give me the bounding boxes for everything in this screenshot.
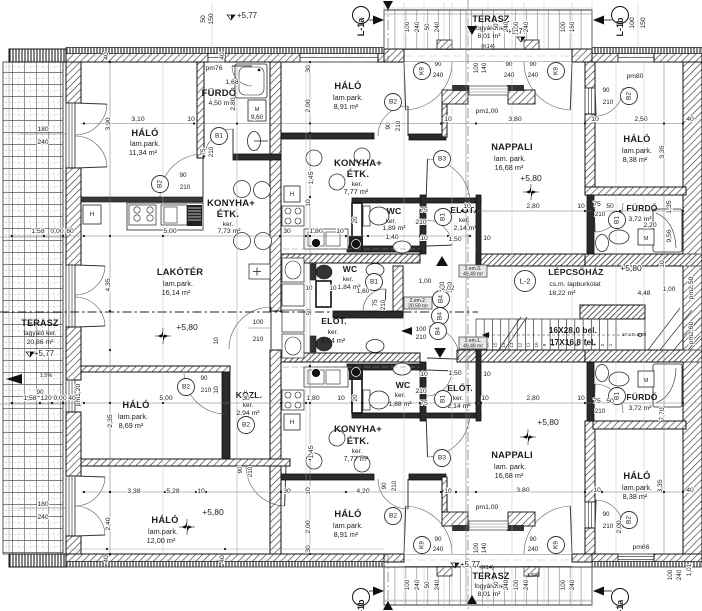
svg-text:B2: B2 xyxy=(626,516,633,524)
north wall NE corner xyxy=(654,49,702,62)
svg-text:10: 10 xyxy=(577,395,585,402)
loggia inner wall piers top xyxy=(442,90,468,104)
svg-text:100: 100 xyxy=(416,326,427,333)
svg-text:1,80: 1,80 xyxy=(309,228,322,235)
svg-text:WC: WC xyxy=(396,380,411,390)
unit label 2.em.1. xyxy=(459,337,487,349)
shelf box apt1 xyxy=(249,264,270,279)
door HÁLÓ 8,91 bottom xyxy=(378,479,408,509)
svg-text:FÜRDŐ: FÜRDŐ xyxy=(626,391,657,402)
svg-text:9,56: 9,56 xyxy=(666,229,673,242)
sink counter center xyxy=(304,229,348,249)
staircase walk line xyxy=(482,334,640,336)
svg-text:M: M xyxy=(644,236,649,242)
section L-1b top xyxy=(612,7,629,24)
svg-text:ÉTK.: ÉTK. xyxy=(217,209,239,220)
svg-text:10: 10 xyxy=(305,199,312,207)
svg-text:16,68 m²: 16,68 m² xyxy=(495,163,524,172)
window pm66 xyxy=(618,554,654,562)
svg-text:1,68: 1,68 xyxy=(225,79,238,86)
WC/ELŐT north wall top xyxy=(352,198,481,203)
stair hall west wall bottom xyxy=(476,350,481,421)
svg-text:8,01 m²: 8,01 m² xyxy=(477,33,501,40)
svg-text:1,5%: 1,5% xyxy=(40,373,53,379)
svg-text:140: 140 xyxy=(481,62,488,73)
svg-text:240: 240 xyxy=(523,21,530,32)
svg-text:HÁLÓ: HÁLÓ xyxy=(122,399,149,410)
svg-text:2,14 m²: 2,14 m² xyxy=(453,225,477,232)
svg-text:+5,80: +5,80 xyxy=(176,322,198,332)
svg-text:B4: B4 xyxy=(435,327,442,335)
svg-text:40: 40 xyxy=(686,487,694,494)
section L-1b bottom xyxy=(353,589,370,606)
kitchen counter top-left xyxy=(127,203,203,230)
svg-text:B1: B1 xyxy=(440,395,447,403)
staircase winder steps xyxy=(616,305,700,350)
label B2 háló 8,69 xyxy=(178,379,195,396)
svg-text:WC: WC xyxy=(343,264,358,274)
svg-text:75: 75 xyxy=(420,207,428,214)
svg-text:40: 40 xyxy=(219,555,226,563)
svg-text:3,10: 3,10 xyxy=(131,116,144,123)
H cabinet top-left xyxy=(83,205,101,224)
svg-text:1,01: 1,01 xyxy=(686,563,693,576)
svg-text:1,35: 1,35 xyxy=(666,200,673,213)
svg-text:10: 10 xyxy=(659,260,666,268)
svg-text:16,68 m²: 16,68 m² xyxy=(495,471,524,480)
svg-text:pm80: pm80 xyxy=(626,73,643,80)
bottom terrace inner piers xyxy=(437,567,452,576)
staircase cut line xyxy=(497,317,521,352)
shower door arc top-left xyxy=(232,66,252,86)
svg-text:lam.park.: lam.park. xyxy=(333,521,363,530)
loggia door caps top xyxy=(452,85,469,91)
unit label 2.em.2. xyxy=(404,297,432,309)
svg-text:B2: B2 xyxy=(182,384,190,391)
svg-text:240: 240 xyxy=(434,579,441,590)
svg-text:(K14): (K14) xyxy=(480,565,494,571)
section line arrows xyxy=(383,1,393,10)
svg-text:LAKÓTÉR: LAKÓTÉR xyxy=(157,266,203,277)
svg-text:75: 75 xyxy=(200,148,207,156)
svg-text:2,80: 2,80 xyxy=(526,395,539,402)
door HÁLÓ top-left xyxy=(160,154,203,197)
entry door top apt xyxy=(428,159,471,203)
window HÁLÓ 8,91 xyxy=(300,49,378,62)
svg-text:K9: K9 xyxy=(419,67,426,75)
section L-1a top xyxy=(353,7,370,24)
svg-text:11,34 m²: 11,34 m² xyxy=(129,148,158,157)
svg-text:7,77 m²: 7,77 m² xyxy=(344,454,369,463)
north wall insulation layer xyxy=(66,48,384,54)
svg-text:150: 150 xyxy=(208,13,215,25)
label B2 háló 8,38 top xyxy=(621,88,638,105)
svg-text:7,77 m²: 7,77 m² xyxy=(344,187,369,196)
svg-text:16,14 m²: 16,14 m² xyxy=(162,288,191,297)
toilet center WC xyxy=(363,206,370,226)
svg-text:30: 30 xyxy=(305,545,312,553)
svg-text:12,00 m²: 12,00 m² xyxy=(147,536,176,545)
svg-text:240: 240 xyxy=(569,579,576,590)
top terrace tiled floor xyxy=(384,10,592,49)
north wall stub xyxy=(378,49,384,62)
svg-text:B2: B2 xyxy=(626,92,633,100)
svg-text:KONYHA+: KONYHA+ xyxy=(207,198,255,209)
svg-text:240: 240 xyxy=(528,546,539,553)
svg-text:+5,80: +5,80 xyxy=(520,173,542,183)
svg-text:210: 210 xyxy=(415,388,427,395)
washing machine M top-left xyxy=(248,100,266,121)
door FÜRDŐ top-left xyxy=(205,129,233,157)
left terrace inner dashed edge xyxy=(62,62,64,554)
svg-text:20: 20 xyxy=(352,394,359,402)
right FÜRDŐ washing machine xyxy=(638,229,654,245)
north terrace railing edge xyxy=(9,49,66,62)
svg-text:lam.park.: lam.park. xyxy=(130,139,160,148)
svg-text:30: 30 xyxy=(283,488,291,495)
svg-text:100: 100 xyxy=(513,21,520,32)
svg-text:3,80: 3,80 xyxy=(516,487,529,494)
svg-text:K9: K9 xyxy=(553,541,560,549)
svg-text:ker.: ker. xyxy=(243,402,254,409)
svg-text:10: 10 xyxy=(591,116,599,123)
svg-text:8,91 m²: 8,91 m² xyxy=(334,530,359,539)
left terrace tiled floor xyxy=(3,62,63,554)
svg-text:pm1,20: pm1,20 xyxy=(75,383,82,406)
svg-text:2,02: 2,02 xyxy=(442,285,455,292)
apt1 washbasin xyxy=(366,340,384,353)
svg-text:100: 100 xyxy=(560,579,567,590)
west french door opening 1 xyxy=(66,103,75,168)
svg-text:pm1,00: pm1,00 xyxy=(476,504,499,511)
svg-text:50: 50 xyxy=(606,398,614,405)
west french door opening 3 xyxy=(66,476,75,536)
svg-text:240: 240 xyxy=(414,21,421,32)
svg-text:10: 10 xyxy=(329,285,337,292)
right FÜRDŐ washbasin xyxy=(609,372,629,386)
WC south wall top xyxy=(347,246,421,252)
apt1 bath counter xyxy=(282,258,304,282)
svg-text:100: 100 xyxy=(404,579,411,590)
svg-text:8,38 m²: 8,38 m² xyxy=(623,492,648,501)
west wall pier 2 xyxy=(66,168,81,265)
stair mid rail wall xyxy=(580,305,645,319)
apt1 WC east wall xyxy=(393,266,403,314)
svg-text:H: H xyxy=(290,420,294,426)
south wall insulation layer xyxy=(66,562,384,568)
svg-text:B3: B3 xyxy=(438,156,446,163)
svg-text:100: 100 xyxy=(473,542,480,553)
top terrace pier W xyxy=(384,49,404,62)
svg-text:L-2: L-2 xyxy=(520,277,531,286)
svg-text:75: 75 xyxy=(593,201,601,208)
west door leafs 2 xyxy=(75,266,105,295)
svg-text:4,35: 4,35 xyxy=(105,278,112,291)
svg-text:4,48: 4,48 xyxy=(638,290,651,297)
west wall pier 3 xyxy=(66,327,81,380)
svg-text:KONYHA+: KONYHA+ xyxy=(334,158,382,169)
door LAKÓTÉR in party wall xyxy=(229,307,271,349)
svg-text:+5,77: +5,77 xyxy=(237,11,258,20)
svg-text:8,01 m²: 8,01 m² xyxy=(477,591,501,598)
label B2 háló top-left xyxy=(152,176,169,193)
stair hall north wall east part xyxy=(585,254,702,266)
apt1 bath counter xyxy=(282,334,304,358)
svg-text:210: 210 xyxy=(391,480,398,491)
svg-text:75: 75 xyxy=(593,398,601,405)
apt1 WC south wall xyxy=(333,311,403,318)
party wall right lower 2 xyxy=(585,421,595,502)
svg-text:7,73 m²: 7,73 m² xyxy=(217,228,241,235)
svg-text:240: 240 xyxy=(503,579,510,590)
terrace pier stub xyxy=(442,104,447,137)
svg-text:210: 210 xyxy=(380,299,387,310)
svg-text:lam. park.: lam. park. xyxy=(494,154,526,163)
svg-text:240: 240 xyxy=(414,579,421,590)
WC niche walls apt1 xyxy=(316,281,331,307)
west wall pier 4 xyxy=(66,412,81,476)
label K9 top west xyxy=(414,63,431,80)
svg-text:HÁLÓ: HÁLÓ xyxy=(151,514,178,525)
svg-text:5,00: 5,00 xyxy=(163,228,176,235)
svg-text:10: 10 xyxy=(577,203,585,210)
door HÁLÓ 8,38 bottom xyxy=(596,500,623,528)
svg-text:7,70: 7,70 xyxy=(659,407,666,420)
label K9 bottom east xyxy=(548,537,565,554)
HÁLÓ 8,91 south wall xyxy=(281,133,374,139)
svg-text:2,00: 2,00 xyxy=(616,520,623,533)
svg-text:lam.park.: lam.park. xyxy=(622,483,652,492)
svg-text:4,50 m²: 4,50 m² xyxy=(208,100,232,107)
svg-text:90: 90 xyxy=(602,511,610,518)
svg-text:1,88 m²: 1,88 m² xyxy=(388,401,412,408)
svg-text:HÁLÓ: HÁLÓ xyxy=(334,508,361,519)
unit label 2.em.3. xyxy=(459,265,487,277)
svg-text:90: 90 xyxy=(385,122,392,130)
stair hall south wall west part xyxy=(281,353,420,362)
svg-text:B3: B3 xyxy=(438,455,446,462)
svg-text:(K14): (K14) xyxy=(481,44,495,50)
svg-text:ÉTK.: ÉTK. xyxy=(347,169,369,180)
svg-text:B2: B2 xyxy=(389,513,397,520)
svg-text:10: 10 xyxy=(420,235,428,242)
stair hall west wall top xyxy=(476,195,481,266)
svg-text:pm2,60: pm2,60 xyxy=(688,321,695,344)
loggia window pm1,00 bottom xyxy=(469,521,508,530)
label B2 háló 8,91 top xyxy=(385,94,402,111)
terrace door K9 east xyxy=(524,62,570,110)
ELŐT west wall top xyxy=(420,195,426,254)
svg-text:10: 10 xyxy=(197,488,205,495)
svg-text:1,00: 1,00 xyxy=(663,286,676,293)
svg-text:240: 240 xyxy=(528,72,539,79)
svg-text:FÜRDŐ: FÜRDŐ xyxy=(626,202,657,213)
svg-text:1,89 m²: 1,89 m² xyxy=(382,225,406,232)
svg-text:140: 140 xyxy=(481,542,488,553)
svg-text:10: 10 xyxy=(213,386,220,394)
svg-text:8,38 m²: 8,38 m² xyxy=(623,155,648,164)
svg-text:210: 210 xyxy=(595,408,606,415)
HÁLÓ 8,91 north wall bottom east xyxy=(409,474,446,480)
right FÜRDŐ bathtub xyxy=(653,364,682,407)
svg-text:ELŐT.: ELŐT. xyxy=(447,382,473,393)
svg-text:5,00: 5,00 xyxy=(159,395,172,402)
svg-text:210: 210 xyxy=(595,211,606,218)
dining circles top-left apt xyxy=(234,181,251,198)
svg-text:210: 210 xyxy=(395,120,402,131)
svg-text:90: 90 xyxy=(381,482,388,490)
svg-text:3,72 m²: 3,72 m² xyxy=(628,405,652,412)
svg-text:75: 75 xyxy=(420,400,428,407)
svg-text:210: 210 xyxy=(247,466,254,477)
label B2 közl xyxy=(238,417,255,434)
HÁLÓ 8,69 north wall xyxy=(81,366,230,372)
FÜRDŐ bottom-right north wall xyxy=(593,421,686,429)
label B3 entry top xyxy=(434,151,451,168)
FÜRDŐ west wall bottom xyxy=(587,362,594,421)
west wall pier 5 xyxy=(66,536,81,554)
HÁLÓ 8,38 south wall xyxy=(585,187,686,195)
svg-text:100: 100 xyxy=(667,569,674,580)
washbasin center WC xyxy=(393,241,411,253)
svg-text:10: 10 xyxy=(534,342,539,348)
svg-text:10: 10 xyxy=(305,487,312,495)
svg-text:1,00: 1,00 xyxy=(419,278,432,285)
svg-text:90: 90 xyxy=(529,61,537,68)
svg-text:20: 20 xyxy=(352,216,359,224)
svg-text:160: 160 xyxy=(569,21,576,32)
FÜRDŐ west wall top xyxy=(587,195,594,254)
svg-text:L-1b: L-1b xyxy=(615,17,625,37)
ELŐT west wall bottom xyxy=(420,362,426,421)
svg-text:K9: K9 xyxy=(419,541,426,549)
svg-text:2,00: 2,00 xyxy=(305,520,312,533)
svg-text:240: 240 xyxy=(523,579,530,590)
svg-text:50: 50 xyxy=(424,23,431,31)
party wall right lower xyxy=(585,528,595,554)
label B1 fürdő top-right xyxy=(609,212,626,229)
label B4 c xyxy=(430,323,447,340)
svg-text:3,35: 3,35 xyxy=(659,145,666,158)
washbasin center WC xyxy=(393,363,411,375)
svg-text:FÜRDŐ: FÜRDŐ xyxy=(202,87,237,99)
west wall pier 1 xyxy=(66,62,81,103)
svg-text:ker.: ker. xyxy=(223,221,234,228)
svg-text:30: 30 xyxy=(305,65,312,73)
loggia door caps bottom xyxy=(452,525,469,531)
svg-text:210: 210 xyxy=(415,219,427,226)
svg-text:lam.park.: lam.park. xyxy=(333,93,363,102)
svg-text:LÉPCSŐHÁZ: LÉPCSŐHÁZ xyxy=(548,266,604,277)
svg-text:40: 40 xyxy=(103,52,110,60)
svg-text:49,49 m²: 49,49 m² xyxy=(463,344,483,350)
stove center xyxy=(282,390,304,410)
svg-text:20,86 m²: 20,86 m² xyxy=(27,339,55,346)
svg-text:9,60: 9,60 xyxy=(251,114,264,121)
dining circles bottom apt xyxy=(306,453,322,469)
WC shaft wall top xyxy=(352,203,362,247)
label B1 elot bottom xyxy=(435,391,452,408)
svg-text:10: 10 xyxy=(213,337,220,345)
svg-text:2,00: 2,00 xyxy=(305,99,312,112)
KONYHA north wall xyxy=(81,197,203,202)
right FÜRDŐ toilet xyxy=(596,235,609,252)
door WC to ELŐT bottom xyxy=(426,371,452,396)
svg-text:210: 210 xyxy=(416,334,427,341)
svg-text:lam. park.: lam. park. xyxy=(494,462,526,471)
svg-text:HÁLÓ: HÁLÓ xyxy=(623,470,650,481)
svg-text:100: 100 xyxy=(513,579,520,590)
svg-text:11: 11 xyxy=(526,342,531,347)
H cabinet center xyxy=(284,186,300,202)
terrace pier stub bottom xyxy=(442,477,447,512)
loggia window pm1,00 top xyxy=(469,86,508,95)
svg-text:5,04 m²: 5,04 m² xyxy=(321,336,346,345)
svg-text:fagyáló ker.: fagyáló ker. xyxy=(23,330,56,337)
svg-text:90: 90 xyxy=(434,536,442,543)
north wall segment 2 xyxy=(225,49,300,62)
svg-text:B1: B1 xyxy=(614,216,621,224)
svg-text:50: 50 xyxy=(200,15,207,23)
svg-text:B2: B2 xyxy=(157,180,164,188)
svg-text:120: 120 xyxy=(40,395,52,402)
door gap right party lower xyxy=(585,502,595,528)
stove center xyxy=(282,206,304,226)
sink counter center xyxy=(304,367,348,387)
loggia edge lines bottom xyxy=(404,566,572,568)
svg-text:100: 100 xyxy=(629,17,636,29)
svg-text:210: 210 xyxy=(603,523,614,530)
svg-text:10: 10 xyxy=(420,371,428,378)
svg-text:4,20: 4,20 xyxy=(356,488,369,495)
svg-text:2,80: 2,80 xyxy=(230,97,237,110)
svg-text:16X28,0 bel.: 16X28,0 bel. xyxy=(549,326,597,335)
svg-text:B1: B1 xyxy=(215,133,223,140)
stove top-left xyxy=(129,205,156,225)
svg-text:ELŐT.: ELŐT. xyxy=(321,315,347,326)
svg-text:pm76: pm76 xyxy=(205,65,222,72)
svg-text:ker.: ker. xyxy=(386,218,397,225)
svg-text:12: 12 xyxy=(517,342,522,348)
svg-text:240: 240 xyxy=(37,514,49,521)
svg-text:ker.: ker. xyxy=(343,276,354,283)
svg-text:NAPPALI: NAPPALI xyxy=(491,142,533,152)
svg-text:ker.: ker. xyxy=(395,392,406,399)
label L-2 xyxy=(515,271,536,292)
window FÜRDŐ pm76 xyxy=(208,49,225,62)
svg-text:2,35: 2,35 xyxy=(107,414,114,427)
svg-text:240: 240 xyxy=(676,569,683,580)
svg-text:100: 100 xyxy=(473,62,480,73)
west door leafs 3 xyxy=(75,477,105,506)
svg-text:HÁLÓ: HÁLÓ xyxy=(131,127,158,138)
svg-text:180: 180 xyxy=(37,126,49,133)
HÁLÓ 12,00 north wall xyxy=(81,459,290,466)
svg-text:B1: B1 xyxy=(440,213,447,221)
svg-text:+5,80: +5,80 xyxy=(620,263,642,273)
sink top-left xyxy=(161,205,187,225)
door KÖZL to HÁLÓ 8,69 xyxy=(184,374,226,415)
toilet center WC xyxy=(363,390,370,410)
svg-text:+5,77: +5,77 xyxy=(34,349,55,358)
label B1 wc apt1 xyxy=(366,274,383,291)
svg-text:10: 10 xyxy=(463,203,471,210)
top terrace inner piers xyxy=(437,40,452,49)
svg-text:15: 15 xyxy=(493,342,498,348)
svg-text:+5,80: +5,80 xyxy=(537,417,559,427)
door WC to ELŐT top xyxy=(426,220,452,245)
svg-text:50: 50 xyxy=(606,203,614,210)
